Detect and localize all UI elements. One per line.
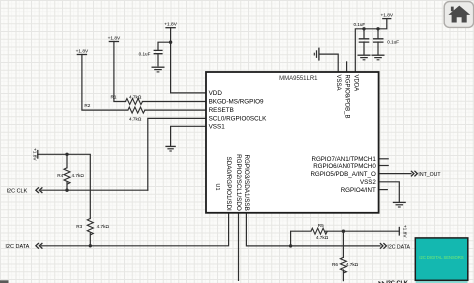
ground (VSSA, rotated left) — [314, 48, 319, 61]
wire: R5 net — [291, 231, 400, 246]
wire: +1.8V pullup rail left — [38, 154, 91, 218]
svg-text:+1.8V: +1.8V — [380, 13, 393, 19]
svg-text:RGPIO3/SDA1/SSB: RGPIO3/SDA1/SSB — [243, 154, 250, 210]
wire: R4 leads — [66, 154, 68, 190]
wire: RGPIO8 stub — [346, 62, 348, 72]
power +1.8V (left pullup, rotated) — [32, 148, 38, 161]
wire: I2C CLK rail — [41, 189, 148, 191]
net label I2C DATA (left) — [5, 243, 42, 250]
wire: RGPIO7 stub — [379, 158, 389, 160]
ground (VSS2) — [393, 202, 406, 207]
svg-text:R6: R6 — [332, 262, 338, 267]
node: R6 top on R5 net — [342, 230, 345, 233]
ground (under C3) — [372, 55, 385, 60]
resistor R2 4.7k (RESETB pullup) — [84, 103, 145, 121]
svg-text:I2C CLK: I2C CLK — [7, 189, 28, 195]
wire: VSS2 to ground — [379, 182, 400, 202]
IC U1 MMA9551LR1 body rectangle — [206, 72, 379, 213]
svg-text:I2C DATA: I2C DATA — [5, 244, 29, 250]
svg-text:4.7kΩ: 4.7kΩ — [129, 94, 142, 99]
wire: VSSA to ground — [320, 54, 339, 72]
wire: RGPIO4 stub — [379, 189, 388, 191]
node: R4 bottom on CLK — [65, 189, 68, 192]
wire: SCL0 to I2C CLK — [148, 118, 206, 190]
wire: C2 leads — [363, 29, 365, 55]
svg-text:RESETB: RESETB — [209, 107, 234, 114]
svg-text:0.1uF: 0.1uF — [387, 39, 399, 44]
node: R5 left on DATA right — [289, 244, 292, 247]
resistor R3 4.7k (I2C DATA pullup, vertical) — [76, 219, 109, 235]
power +1.8V (VDD) — [164, 22, 177, 28]
net label I2C CLK (left) — [7, 187, 43, 194]
svg-text:SCL0/RGPIO0SCLK: SCL0/RGPIO0SCLK — [209, 116, 268, 123]
svg-text:+1.8V: +1.8V — [32, 148, 38, 161]
capacitor C1 0.1uF — [139, 50, 163, 66]
wire: +1.8V to VDD vertical — [171, 28, 206, 93]
home button — [444, 2, 473, 28]
svg-text:VSS1: VSS1 — [209, 123, 226, 130]
svg-text:+1.8V: +1.8V — [108, 35, 121, 41]
svg-text:VSSA: VSSA — [335, 75, 341, 91]
svg-text:VDD: VDD — [209, 90, 223, 97]
svg-text:VSS2: VSS2 — [360, 179, 376, 186]
svg-text:4.7kΩ: 4.7kΩ — [72, 173, 85, 178]
resistor R4 4.7k (I2C CLK pullup, vertical) — [57, 168, 84, 184]
svg-text:4.7kΩ: 4.7kΩ — [346, 262, 359, 267]
svg-text:I2C DATA: I2C DATA — [387, 244, 410, 250]
capacitor C3 0.1uF — [373, 39, 399, 45]
power +1.8V (R1/BKGD) — [108, 35, 121, 41]
block: I2C digital sensors — [415, 238, 468, 283]
node: C3 on rail — [376, 27, 379, 30]
power +1.8V (R2/RESETB) — [76, 48, 89, 54]
wire: R3 bottom lead — [89, 233, 91, 246]
wire: RGPIO6 stub — [379, 165, 389, 167]
svg-text:0.1uF: 0.1uF — [353, 22, 365, 27]
svg-text:4.7kΩ: 4.7kΩ — [316, 235, 329, 240]
ground (VSS1) — [165, 146, 175, 151]
svg-text:4.7kΩ: 4.7kΩ — [97, 224, 110, 229]
wire: branch to C1 — [158, 42, 171, 50]
resistor R1 4.7k (BKGD pullup) — [111, 94, 143, 104]
net label INT_OUT — [411, 171, 442, 178]
wire: C3 leads — [377, 29, 379, 55]
svg-text:RGPIO8/PDB_B: RGPIO8/PDB_B — [344, 75, 350, 119]
wire: I2C DATA left rail — [41, 213, 228, 246]
svg-text:SDA0/RGPIO1/SDI: SDA0/RGPIO1/SDI — [225, 157, 232, 211]
node: C2 on rail — [362, 27, 365, 30]
wire: R2 RESETB net — [82, 55, 206, 111]
wire: VDDA to +1.8V rail — [355, 19, 387, 72]
resistor R6 4.7k (vertical, bottom right) — [332, 257, 359, 273]
ground (under C1) — [152, 67, 165, 72]
svg-text:+1.8V: +1.8V — [402, 225, 408, 238]
svg-text:BKGD-MS/RGPIO9: BKGD-MS/RGPIO9 — [209, 99, 264, 106]
svg-text:RGPIO5/PDB_A/INT_O: RGPIO5/PDB_A/INT_O — [310, 171, 376, 178]
power +1.8V (VDDA rail) — [380, 13, 393, 19]
power +1.8V (right pullup, rotated) — [399, 225, 407, 238]
svg-text:R3: R3 — [76, 224, 82, 229]
capacitor C2 0.1uF — [353, 22, 369, 42]
svg-text:RGPIO4/INT: RGPIO4/INT — [341, 187, 376, 194]
svg-text:R5: R5 — [318, 223, 324, 228]
svg-text:+1.8V: +1.8V — [76, 48, 89, 54]
svg-text:RGPIO2/SCL1/SDO: RGPIO2/SCL1/SDO — [235, 154, 242, 211]
svg-text:R4: R4 — [57, 173, 63, 178]
svg-text:U1: U1 — [214, 184, 220, 191]
resistor R5 4.7k (I2C DATA right pullup) — [311, 223, 329, 240]
svg-text:R1: R1 — [111, 94, 117, 99]
wire: SCL1/SDO pin down — [238, 213, 240, 281]
net label I2C CLK (bottom, cut off) — [378, 280, 408, 283]
wire: RGPIO5 to INT_OUT — [379, 173, 411, 175]
node: R4 top — [65, 153, 68, 156]
svg-text:4.7kΩ: 4.7kΩ — [129, 117, 142, 122]
svg-text:R2: R2 — [84, 103, 90, 108]
svg-text:RGPIO6/AN0TPMCH0: RGPIO6/AN0TPMCH0 — [313, 163, 376, 170]
wire: R1 BKGD net — [114, 42, 206, 102]
svg-text:0.1uF: 0.1uF — [139, 51, 151, 56]
wire: R6 leads — [342, 231, 344, 281]
wire: SDA1 pin to I2C DATA right — [246, 213, 380, 246]
svg-text:+1.8V: +1.8V — [164, 22, 177, 28]
net label I2C DATA (right) — [380, 243, 411, 250]
svg-text:INT_OUT: INT_OUT — [418, 172, 441, 178]
wire: VSS1 to ground — [171, 126, 206, 146]
svg-text:MMA9551LR1: MMA9551LR1 — [279, 76, 318, 82]
ground (under C2) — [358, 55, 371, 60]
node: C1 branch — [169, 41, 172, 44]
svg-text:I2C DIGITAL SENSORS: I2C DIGITAL SENSORS — [419, 255, 463, 260]
node: R3 bottom on DATA — [89, 244, 92, 247]
corner mark bottom-left — [0, 280, 9, 283]
svg-text:VDDA: VDDA — [352, 75, 358, 92]
